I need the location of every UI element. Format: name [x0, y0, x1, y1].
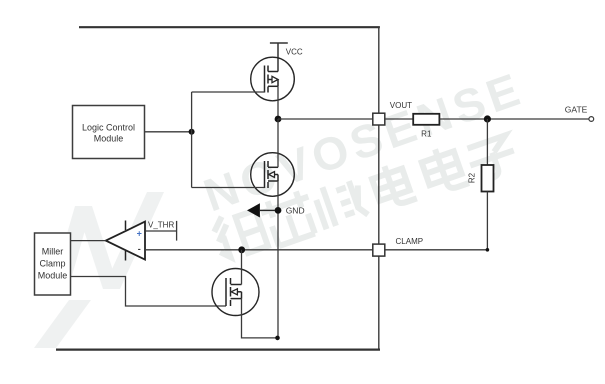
pin CLAMP square — [373, 244, 385, 256]
wire logic box to branch — [145, 131, 192, 133]
svg-text:CLAMP: CLAMP — [396, 237, 424, 246]
VCC symbol — [270, 43, 288, 72]
svg-text:Module: Module — [94, 134, 124, 144]
wire to Q2 gate — [192, 187, 265, 189]
resistor R1 — [413, 114, 439, 125]
IC boundary top border — [79, 26, 380, 28]
wire to Q1 gate — [192, 91, 265, 93]
IC boundary bottom border — [56, 349, 380, 351]
wire comparator plus input — [145, 230, 177, 232]
wire Miller box to clamp FET gate — [71, 277, 226, 307]
wire comparator output to Miller box — [71, 240, 106, 242]
svg-text:Module: Module — [38, 271, 68, 281]
svg-text:Clamp: Clamp — [39, 259, 65, 269]
V_THR bar — [176, 221, 178, 241]
wire R1 to GATE — [439, 118, 589, 120]
watermark text CJK approx — [209, 134, 520, 261]
transistor Q1 (PMOS high-side) — [251, 57, 295, 101]
IC boundary right border — [378, 27, 380, 349]
node GND dot — [275, 207, 282, 214]
node VOUT dot — [275, 116, 282, 123]
node R1-R2 dot — [484, 115, 491, 122]
wire R2 top — [486, 119, 488, 165]
svg-text:R2: R2 — [468, 172, 477, 183]
node logic branch dot — [189, 129, 195, 135]
op-amp comparator U1 — [106, 222, 145, 260]
wire Q2 drain to VOUT node — [277, 119, 279, 167]
GND arrow — [247, 203, 260, 217]
Miller Clamp Module box — [35, 233, 71, 295]
svg-text:+: + — [137, 229, 142, 239]
svg-text:Miller: Miller — [42, 247, 64, 257]
wire Q3 drain to CLAMP node — [241, 250, 243, 285]
resistor R2 — [482, 165, 494, 192]
svg-text:R1: R1 — [421, 130, 432, 139]
Logic Control Module box — [73, 106, 145, 159]
wire branch vertical — [191, 92, 193, 188]
svg-text:VOUT: VOUT — [390, 101, 412, 110]
watermark text NOVOSENSE — [197, 62, 530, 222]
node clamp FET drain dot — [238, 246, 245, 253]
svg-text:VCC: VCC — [286, 48, 303, 57]
wire Q3 source to GND rail — [242, 299, 278, 338]
svg-text:Logic Control: Logic Control — [82, 123, 135, 133]
node Q3 source corner dot — [275, 336, 280, 341]
wire pin to R1 — [385, 118, 413, 120]
svg-text:V_THR: V_THR — [148, 221, 174, 230]
transistor Q2 (NMOS low-side) — [251, 153, 295, 197]
wire R2 bottom to CLAMP line — [385, 192, 488, 250]
wire Q2 source down to GND rail — [277, 181, 279, 338]
svg-text:GND: GND — [286, 206, 305, 216]
wire comparator minus input / CLAMP net — [145, 249, 373, 251]
GATE terminal circle — [589, 117, 594, 122]
watermark logo N mark — [34, 192, 164, 348]
svg-text:-: - — [138, 244, 141, 254]
svg-text:GATE: GATE — [565, 105, 588, 115]
transistor Q3 (Miller clamp NMOS) — [212, 269, 259, 316]
wire Q1 source to VOUT node — [277, 86, 279, 119]
wire VOUT node to pin — [278, 118, 373, 120]
pin VOUT square — [373, 113, 385, 125]
